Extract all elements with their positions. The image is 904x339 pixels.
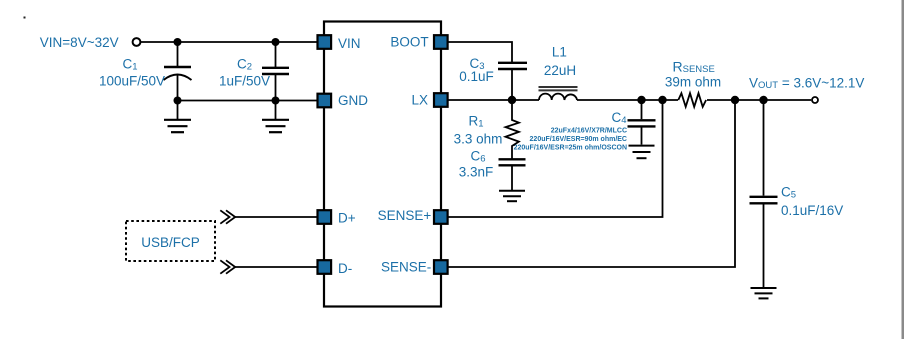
junction C1 top bbox=[174, 38, 182, 46]
USB/FCP source box bbox=[126, 221, 215, 261]
ground under C4 bbox=[629, 146, 655, 159]
junction C1 bottom bbox=[174, 97, 182, 105]
output terminal bbox=[812, 97, 818, 103]
svg-text:BOOT: BOOT bbox=[390, 35, 428, 50]
label L1 value bbox=[544, 44, 576, 78]
wire SENSE+ net bbox=[448, 100, 663, 217]
junction C4 bbox=[637, 96, 645, 104]
resistor RSENSE bbox=[678, 93, 706, 107]
chevrons D- bbox=[220, 260, 235, 273]
label C1 value bbox=[99, 57, 165, 89]
capacitor C5 bbox=[750, 100, 778, 287]
wire BOOT to C3 bbox=[448, 42, 512, 62]
pin GND bbox=[318, 94, 332, 108]
pin VIN bbox=[318, 35, 332, 49]
svg-text:100uF/50V: 100uF/50V bbox=[99, 74, 165, 89]
inductor L1 bbox=[539, 87, 578, 100]
pin D- bbox=[318, 260, 332, 274]
capacitor C6 bbox=[499, 159, 526, 190]
input terminal bbox=[133, 38, 141, 46]
svg-text:22uFx4/16V/X7R/MLCC: 22uFx4/16V/X7R/MLCC bbox=[551, 128, 627, 135]
junction C5 bbox=[759, 96, 767, 104]
ground under C6 bbox=[499, 191, 525, 201]
chevrons D+ bbox=[220, 210, 235, 223]
ground under C5 bbox=[751, 288, 777, 298]
svg-text:1uF/50V: 1uF/50V bbox=[219, 74, 270, 89]
label C6 value bbox=[459, 149, 494, 180]
capacitor C4 bbox=[628, 100, 656, 145]
wire D+ bbox=[236, 216, 318, 218]
capacitor C3 bbox=[498, 63, 527, 100]
wire D- bbox=[236, 266, 318, 268]
svg-text:VIN=8V~32V: VIN=8V~32V bbox=[40, 35, 119, 50]
junction C2 bottom bbox=[272, 97, 280, 105]
svg-text:GND: GND bbox=[338, 93, 368, 108]
pin SENSE+ bbox=[434, 210, 448, 224]
capacitor C1 bbox=[164, 42, 192, 101]
pin D+ bbox=[318, 210, 332, 224]
wire input rail bbox=[141, 41, 318, 43]
svg-text:22uH: 22uH bbox=[544, 63, 576, 78]
svg-text:SENSE-: SENSE- bbox=[381, 260, 431, 275]
junction SENSE- bbox=[731, 96, 739, 104]
svg-text:LX: LX bbox=[411, 93, 428, 108]
svg-text:L1: L1 bbox=[552, 44, 567, 59]
svg-text:0.1uF: 0.1uF bbox=[459, 69, 494, 84]
wire output rail bbox=[707, 99, 811, 101]
svg-text:220uF/16V/ESR=90m ohm/EC: 220uF/16V/ESR=90m ohm/EC bbox=[530, 136, 627, 143]
svg-text:3.3 ohm: 3.3 ohm bbox=[454, 132, 503, 147]
wire ground rail bbox=[178, 100, 318, 102]
pin SENSE- bbox=[434, 260, 448, 274]
svg-text:SENSE+: SENSE+ bbox=[378, 208, 432, 223]
label C3 value bbox=[459, 56, 494, 84]
pin LX bbox=[434, 93, 448, 107]
junction C2 top bbox=[272, 38, 280, 46]
svg-text:0.1uF/16V: 0.1uF/16V bbox=[781, 203, 843, 218]
capacitor C2 bbox=[262, 42, 289, 101]
svg-text:VIN: VIN bbox=[338, 36, 361, 51]
label C5 value bbox=[781, 185, 843, 219]
wire LX rail bbox=[448, 99, 539, 101]
IC U1 body bbox=[324, 22, 441, 307]
junction SENSE+ bbox=[658, 96, 666, 104]
svg-text:USB/FCP: USB/FCP bbox=[141, 235, 200, 250]
label R1 value bbox=[454, 114, 503, 147]
stray dot bbox=[24, 17, 26, 19]
pin BOOT bbox=[434, 35, 448, 49]
wire LX rail 2 bbox=[577, 99, 678, 101]
right page border bbox=[902, 0, 904, 339]
label C2 value bbox=[219, 57, 270, 89]
wire SENSE- net bbox=[448, 100, 735, 267]
ground under C2 bbox=[262, 101, 289, 133]
svg-text:220uF/16V/ESR=25m ohm/OSCON: 220uF/16V/ESR=25m ohm/OSCON bbox=[514, 145, 627, 152]
svg-text:3.3nF: 3.3nF bbox=[459, 165, 494, 180]
svg-text:D+: D+ bbox=[338, 211, 356, 226]
ground under C1 bbox=[164, 101, 191, 133]
svg-text:39m ohm: 39m ohm bbox=[665, 75, 721, 90]
junction C3/R1 bbox=[508, 96, 516, 104]
svg-text:D-: D- bbox=[338, 261, 352, 276]
resistor R1 bbox=[506, 100, 519, 159]
